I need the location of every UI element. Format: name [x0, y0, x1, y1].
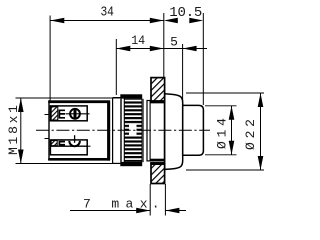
terminal bottom slot tick [87, 145, 90, 147]
dim line 7max left [70, 210, 150, 212]
dim line O22 [260, 93, 262, 170]
centerline [36, 129, 210, 131]
svg-text:.: . [152, 197, 160, 212]
neck outline [147, 101, 165, 161]
extension line 7max right [164, 184, 166, 216]
extension line O22 bottom [186, 169, 264, 171]
terminal bottom hatch square [51, 141, 57, 146]
arrow 10.5 left [164, 18, 178, 24]
terminal bottom clamp [59, 141, 65, 145]
extension line M18 bottom [16, 163, 121, 165]
arrow 34 right [150, 18, 164, 24]
arrow 14 right [150, 46, 164, 52]
arrow 34 left [50, 18, 64, 24]
extension line O14 bottom [205, 154, 237, 156]
panel bottom block [151, 163, 165, 184]
dim line M18x1 [20, 98, 22, 164]
dim line 14-5 [116, 48, 207, 50]
extension line junction x=163.8 [163, 13, 165, 78]
thread center clearance [129, 124, 137, 135]
terminal top screw slot [74, 109, 77, 119]
svg-text:Ø22: Ø22 [243, 119, 258, 150]
terminal top hatch square [51, 107, 58, 120]
svg-text:M18x1: M18x1 [6, 105, 21, 155]
thread ridges [124, 99, 141, 162]
terminal bottom screw arc [69, 141, 80, 146]
extension line 5 right / bezel front [182, 44, 184, 101]
dim line 7max right [165, 210, 186, 212]
thread outline [121, 95, 142, 166]
panel top hole edge [150, 100, 164, 103]
ring between housing and thread [112, 98, 114, 164]
terminal top clamp [59, 110, 65, 119]
terminal bottom divider [50, 145, 87, 147]
arrow O22 bottom [258, 156, 264, 170]
extension line lens front x=203.3 [202, 13, 204, 105]
extension line 7max left [149, 184, 151, 216]
thread right boundary [142, 99, 144, 162]
extension line 14 left [115, 39, 117, 95]
housing body outline [49, 101, 110, 160]
arrow 7max left (outside) [136, 208, 150, 214]
lens outline [183, 105, 204, 155]
panel bottom seat edge [150, 159, 164, 161]
arrow O14 top [229, 106, 235, 120]
housing right thick edge [107, 101, 110, 161]
panel top block [151, 78, 165, 103]
svg-text:Ø14: Ø14 [215, 118, 230, 149]
arrow 5 right (outside) [183, 46, 197, 52]
terminal block bottom [50, 140, 87, 155]
panel bottom block top edge [150, 162, 164, 165]
extension line 34 left [49, 16, 51, 102]
housing top thick edge [48, 101, 110, 104]
bezel back face [164, 94, 166, 170]
extension line O14 top [205, 105, 237, 107]
dim line 34 [50, 20, 164, 22]
ring top edge [113, 97, 121, 99]
housing bottom thick edge [48, 158, 110, 161]
arrow M18 bottom [18, 150, 24, 164]
svg-text:10.5: 10.5 [169, 5, 202, 21]
extension line O22 top [186, 92, 264, 94]
terminal block top [50, 106, 87, 121]
neck shoulder line [149, 101, 151, 161]
terminal top screw head [70, 109, 80, 119]
arrow M18 top [18, 98, 24, 112]
extension line M18 top [16, 97, 121, 99]
bezel outline [165, 94, 183, 170]
arrow O14 bottom [229, 141, 235, 155]
ring bottom edge [113, 162, 121, 164]
tick left bottom screw [45, 138, 50, 140]
thread top cap [121, 95, 142, 99]
terminal bottom screw tick [74, 135, 76, 143]
tick left top screw [45, 114, 50, 116]
svg-text:14: 14 [131, 33, 145, 48]
svg-text:34: 34 [100, 5, 114, 21]
terminal top screw axis line [66, 113, 90, 115]
svg-text:5: 5 [170, 35, 178, 50]
thread root line [123, 99, 125, 163]
arrow 14 left [116, 46, 130, 52]
thread bottom cap [121, 162, 142, 166]
arrow 10.5 right [189, 18, 203, 24]
arrow O22 top [258, 93, 264, 107]
arrow 7max right (outside) [165, 208, 179, 214]
dim line O14 [231, 106, 233, 155]
